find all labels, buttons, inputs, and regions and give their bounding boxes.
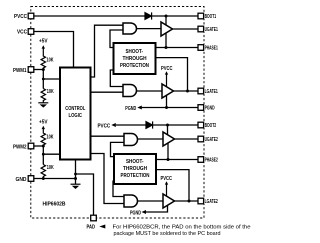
- wire LGATE2 feedback: [156, 170, 189, 201]
- wire to control logic left ch2: [43, 153, 60, 155]
- svg-text:PVCC: PVCC: [98, 123, 111, 129]
- svg-text:PGND: PGND: [130, 210, 141, 216]
- svg-text:PWM2: PWM2: [13, 144, 27, 150]
- pin UGATE1: [198, 26, 204, 32]
- wire VCC to control logic: [33, 32, 74, 68]
- svg-text:GND: GND: [16, 177, 27, 183]
- svg-text:10K: 10K: [47, 165, 54, 171]
- pin PHASE2: [198, 157, 204, 163]
- node LGATE1 junction: [186, 90, 189, 93]
- pin GND: [28, 176, 34, 182]
- PVCC arrow U2: [165, 71, 168, 87]
- op-amp driver U3 (UGATE2): [163, 132, 175, 146]
- svg-text:BOOT1: BOOT1: [205, 14, 217, 20]
- svg-text:PROTECTION: PROTECTION: [121, 173, 150, 179]
- svg-text:10K: 10K: [47, 134, 54, 140]
- wire A4 out to U4 in: [138, 200, 164, 202]
- shoot-through protection box B1: [114, 43, 156, 74]
- wire LGATE1 feedback: [156, 58, 188, 91]
- svg-text:SHOOT-: SHOOT-: [126, 159, 144, 165]
- svg-text:For HIP6602BCR, the PAD on the: For HIP6602BCR, the PAD on the bottom si…: [113, 225, 251, 231]
- node PWM2 junction: [42, 145, 45, 148]
- pin BOOT1: [198, 13, 204, 19]
- node GND resistor junction: [42, 177, 45, 180]
- node R2 junction: [42, 78, 45, 81]
- wire shoot-through to A1 in2: [110, 30, 123, 48]
- node PWM1 junction: [42, 68, 45, 71]
- svg-text:PGND: PGND: [125, 106, 136, 112]
- wire U4 out to LGATE2: [175, 200, 199, 202]
- +5V arrow ch2: [42, 126, 45, 133]
- control logic box: [60, 68, 91, 160]
- wire PWM2 node: [33, 145, 43, 147]
- wire U3 out to UGATE2: [175, 138, 199, 140]
- wire PAD: [76, 174, 94, 215]
- pin PVCC: [28, 13, 34, 19]
- svg-text:UGATE2: UGATE2: [205, 137, 218, 143]
- +5V arrow ch1: [42, 45, 45, 55]
- resistor R4 10K: [41, 165, 45, 180]
- svg-text:THROUGH: THROUGH: [123, 56, 147, 62]
- arrow PVCC ch2: [111, 123, 116, 127]
- pin LGATE2: [198, 198, 204, 204]
- wire rail to driver U1 top: [165, 16, 167, 26]
- svg-text:LOGIC: LOGIC: [69, 113, 83, 119]
- node PGND junction: [165, 106, 168, 109]
- op-amp driver U2 (LGATE1): [162, 84, 174, 98]
- ground symbol G1: [38, 103, 48, 108]
- wire GND line: [33, 178, 76, 180]
- pin PWM1: [28, 67, 34, 73]
- wire PGND line: [142, 107, 199, 109]
- diode D2: [146, 121, 153, 128]
- wire shoot-through to A2 in1: [110, 70, 123, 87]
- node phase2 junction: [167, 158, 170, 161]
- wire shoot-through B2 to A3 in2: [111, 142, 125, 156]
- svg-text:package MUST be soldered to th: package MUST be soldered to the PC board: [114, 231, 221, 237]
- wire U2 out to LGATE1: [174, 90, 199, 92]
- wire U3 bottom rail to phase2: [167, 143, 169, 160]
- wire A2 out to U2 in: [137, 90, 163, 92]
- wire PVCC to BOOT2 rail: [116, 124, 198, 126]
- arrow PGND ch2: [142, 210, 147, 214]
- svg-text:PGND: PGND: [205, 106, 215, 112]
- PVCC arrow U4: [165, 181, 168, 196]
- shoot-through protection box B2: [114, 154, 156, 184]
- pin PHASE1: [198, 45, 204, 51]
- svg-text:PVCC: PVCC: [161, 66, 173, 72]
- wire PWM1 node: [33, 69, 43, 71]
- wire PWM1 down and to control: [42, 70, 44, 89]
- pin UGATE2: [198, 136, 204, 142]
- wire control logic bottom to ground: [75, 160, 77, 185]
- node phase junction: [165, 46, 168, 49]
- svg-text:LGATE2: LGATE2: [205, 199, 218, 205]
- wire rail to U3 top: [167, 125, 169, 135]
- and-gate A3: [124, 134, 138, 146]
- svg-text:10K: 10K: [47, 89, 54, 95]
- ground symbol G2: [71, 184, 81, 189]
- svg-text:THROUGH: THROUGH: [123, 166, 147, 172]
- node R4 junction: [42, 153, 45, 156]
- pin VCC: [28, 29, 34, 35]
- and-gate A2: [123, 85, 137, 97]
- arrow PAD: [99, 225, 105, 229]
- chip dashed border: [31, 7, 204, 219]
- svg-text:VCC: VCC: [17, 30, 27, 36]
- svg-text:PHASE2: PHASE2: [205, 158, 218, 164]
- svg-text:PHASE1: PHASE1: [205, 46, 218, 52]
- node ground junction: [74, 177, 77, 180]
- wire control to A2 in2: [91, 91, 124, 93]
- node BOOT2 rail junction: [166, 124, 169, 127]
- op-amp driver U1 (UGATE1): [161, 22, 173, 36]
- svg-text:PAD: PAD: [87, 225, 96, 231]
- wire PHASE2 line: [156, 159, 198, 161]
- svg-text:+5V: +5V: [39, 119, 48, 125]
- wire U2 ground rail: [166, 95, 168, 108]
- wire U4 ground rail to PGND: [146, 205, 168, 212]
- op-amp driver U4 (LGATE2): [163, 194, 175, 208]
- svg-text:UGATE1: UGATE1: [205, 27, 218, 33]
- and-gate A4: [124, 195, 138, 207]
- svg-text:10K: 10K: [47, 57, 54, 63]
- pin PWM2: [28, 143, 34, 149]
- wire PVCC to BOOT1 rail: [33, 15, 198, 17]
- wire PHASE1 line: [156, 47, 199, 49]
- pin LGATE1: [198, 88, 204, 94]
- diode D1: [145, 12, 152, 19]
- wire A3 out to U3 in: [138, 138, 164, 140]
- svg-text:BOOT2: BOOT2: [205, 123, 217, 129]
- wire to control logic left: [43, 78, 60, 80]
- pin PAD: [91, 215, 97, 221]
- wire control to A1 in1: [91, 25, 124, 77]
- wire control to A4 in2: [91, 154, 125, 204]
- svg-text:PVCC: PVCC: [161, 176, 173, 182]
- svg-text:+5V: +5V: [39, 39, 48, 45]
- node LGATE2 junction: [188, 200, 191, 203]
- svg-text:PROTECTION: PROTECTION: [120, 63, 149, 69]
- label background masks (right pin rows): [204, 13, 220, 204]
- svg-text:HIP6602B: HIP6602B: [43, 202, 66, 208]
- pin BOOT2: [198, 122, 204, 128]
- wire U1 bottom rail to phase line: [165, 33, 167, 48]
- wire B2 to A4 in1: [113, 181, 124, 197]
- and-gate A1: [123, 23, 137, 34]
- svg-text:CONTROL: CONTROL: [65, 106, 86, 112]
- resistor R3 10K: [41, 133, 45, 146]
- node BOOT1 rail junction: [165, 15, 168, 18]
- node PAD tap junction: [74, 173, 77, 176]
- resistor R1 10K: [41, 55, 45, 70]
- svg-text:LGATE1: LGATE1: [205, 89, 218, 95]
- resistor R2 10K: [41, 89, 45, 103]
- svg-text:PVCC: PVCC: [14, 14, 27, 20]
- wire control to A3 in1: [91, 135, 125, 137]
- arrow PGND ch1: [137, 106, 142, 110]
- wire AND A1 out to U1 in: [137, 28, 162, 30]
- wire PWM2 down: [42, 146, 44, 165]
- pin PGND: [198, 105, 204, 111]
- wire U1 out to UGATE1: [173, 28, 199, 30]
- svg-text:PWM1: PWM1: [13, 68, 27, 74]
- svg-text:SHOOT-: SHOOT-: [126, 49, 144, 55]
